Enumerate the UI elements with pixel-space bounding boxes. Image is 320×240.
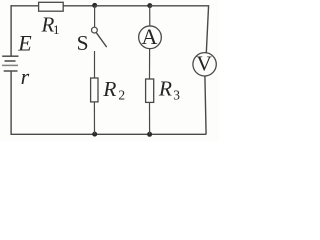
svg-text:3: 3	[173, 87, 180, 102]
wire top rail from switch node to ammeter node	[95, 5, 150, 7]
wire from switch lower contact down to R2	[94, 51, 96, 78]
wire right edge upper (top-right corner down to voltmeter)	[206, 5, 208, 53]
svg-text:V: V	[196, 51, 212, 75]
svg-text:R: R	[158, 76, 172, 100]
svg-text:1: 1	[53, 22, 60, 37]
svg-text:A: A	[142, 24, 158, 49]
node junction bottom of R2 branch	[92, 132, 97, 137]
wire from R3 down to bottom rail	[149, 102, 151, 134]
node junction bottom of R3 branch	[147, 132, 152, 137]
wire ammeter branch from top node down to ammeter	[149, 6, 151, 27]
voltmeter V	[193, 51, 216, 76]
wire left edge upper (corner down to battery)	[10, 5, 12, 56]
battery E with internal resistance r	[2, 30, 32, 89]
resistor R3	[146, 76, 181, 102]
resistor R1	[39, 2, 64, 37]
svg-text:E: E	[17, 30, 32, 55]
resistor R2	[91, 77, 126, 103]
wire left edge lower (battery down to bottom-left corner)	[10, 71, 12, 135]
ammeter A	[139, 24, 162, 49]
svg-text:R: R	[102, 77, 116, 101]
wire top rail from ammeter node to top-right corner	[150, 5, 209, 7]
wire right edge lower (voltmeter down to bottom-right corner)	[205, 76, 206, 134]
svg-text:2: 2	[118, 88, 125, 103]
wire bottom rail	[11, 133, 207, 135]
switch S	[77, 27, 107, 55]
wire top rail from top-left corner to R1	[11, 5, 40, 7]
wire from R2 down to bottom rail	[93, 102, 95, 134]
node junction top of ammeter branch	[147, 3, 152, 8]
svg-text:S: S	[77, 31, 89, 55]
wire switch branch from top node down to switch	[94, 6, 96, 28]
wire from ammeter down to R3	[149, 49, 151, 80]
wire top rail from R1 to switch node	[63, 5, 94, 7]
node junction top of switch branch	[92, 3, 97, 8]
svg-text:r: r	[21, 64, 30, 89]
